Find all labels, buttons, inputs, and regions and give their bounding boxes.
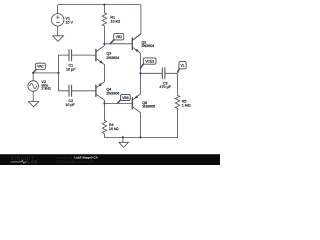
label tail VB2 bbox=[110, 40, 114, 44]
wire V2 to ground bbox=[32, 91, 34, 101]
wire input node bbox=[33, 72, 58, 74]
wire bottom rail bbox=[104, 136, 177, 138]
watermark bar bbox=[0, 154, 220, 165]
svg-text:470 µF: 470 µF bbox=[159, 85, 171, 89]
svg-text:2N3906: 2N3906 bbox=[106, 92, 119, 96]
svg-text:VAC: VAC bbox=[37, 65, 44, 69]
node VCE3 (output) bbox=[139, 72, 141, 74]
label tail VAC bbox=[33, 69, 36, 72]
transistor Q6 bbox=[131, 98, 133, 109]
transistor Q2 bbox=[131, 38, 133, 49]
svg-text:VB2: VB2 bbox=[116, 35, 122, 39]
svg-text:http://circuitlab.com/cwck13F: http://circuitlab.com/cwck13F bbox=[57, 159, 94, 163]
wire Q3 emitter to Q4 emitter bbox=[103, 65, 105, 82]
svg-text:1 MΩ: 1 MΩ bbox=[182, 103, 191, 107]
node label VCE3 bbox=[143, 58, 156, 64]
node VB6 bbox=[103, 102, 105, 104]
svg-text:2 kHz: 2 kHz bbox=[42, 87, 52, 91]
svg-text:LAB: LAB bbox=[28, 160, 38, 165]
svg-text:10 kΩ: 10 kΩ bbox=[109, 127, 119, 131]
label boxes bbox=[36, 34, 187, 101]
voltage source V2 bbox=[32, 73, 34, 81]
svg-text:VCE3: VCE3 bbox=[145, 59, 154, 63]
svg-text:VB6: VB6 bbox=[122, 96, 128, 100]
wire top rail bbox=[58, 5, 141, 40]
node label VB2 bbox=[114, 34, 124, 40]
capacitor C2 bbox=[69, 85, 72, 96]
ground (V2) bbox=[28, 102, 38, 107]
svg-text:10 µF: 10 µF bbox=[65, 103, 75, 107]
ground (V1) bbox=[53, 36, 64, 42]
label tail VL bbox=[178, 69, 180, 73]
svg-text:VL: VL bbox=[181, 64, 185, 68]
node VB2 bbox=[103, 43, 105, 45]
node: Q6 collector / bottom rail junction bbox=[139, 136, 141, 138]
node: top rail / R1 junction bbox=[103, 4, 105, 6]
svg-text:2N3904: 2N3904 bbox=[141, 44, 154, 48]
node: bottom rail ground junction bbox=[122, 136, 124, 138]
svg-text:10 kΩ: 10 kΩ bbox=[110, 19, 120, 23]
ground (bottom rail) bbox=[119, 137, 128, 147]
resistor R1 bbox=[102, 5, 106, 44]
svg-text:10 µF: 10 µF bbox=[66, 68, 76, 72]
wire split column bbox=[59, 55, 70, 91]
wire C1 to Q3 base bbox=[72, 54, 96, 56]
wire V1 to ground bbox=[57, 26, 59, 36]
svg-text:15 V: 15 V bbox=[65, 21, 73, 25]
node: VAC input junction bbox=[32, 72, 34, 74]
transistor Q3 bbox=[95, 49, 97, 60]
resistor R4 bbox=[102, 103, 106, 137]
svg-text:2N3904: 2N3904 bbox=[106, 56, 119, 60]
wire C2 row bbox=[59, 90, 70, 92]
node label VAC bbox=[36, 63, 46, 69]
svg-text:Q3: Q3 bbox=[106, 52, 111, 56]
wire VB6 node to Q6 base bbox=[104, 102, 132, 104]
svg-text:2N3906: 2N3906 bbox=[142, 105, 155, 109]
wire output node to C3 bbox=[141, 72, 163, 74]
transistor Q4 bbox=[95, 85, 97, 96]
node label VB6 bbox=[121, 94, 131, 100]
node label VL bbox=[179, 62, 186, 69]
label tail VCE3 bbox=[140, 64, 143, 68]
label tail VB6 bbox=[118, 100, 121, 104]
resistor R5 bbox=[175, 95, 179, 137]
capacitor C3 bbox=[162, 68, 165, 79]
wire VB2 node to Q2 base bbox=[104, 43, 132, 45]
wire C3 to VL node bbox=[165, 73, 178, 95]
node: input split junction bbox=[57, 72, 59, 74]
capacitor C1 bbox=[69, 50, 72, 61]
voltage source V1 bbox=[52, 14, 64, 26]
wire C2 to Q4 base bbox=[72, 90, 96, 92]
